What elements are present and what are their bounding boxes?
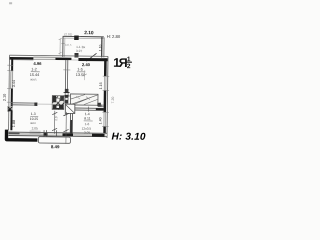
porch right wall	[101, 37, 103, 57]
svg-text:3.44: 3.44	[12, 80, 16, 87]
porch left wall	[62, 36, 64, 56]
svg-text:8.11: 8.11	[84, 117, 91, 121]
chimney block	[52, 96, 64, 110]
svg-text:1-5: 1-5	[77, 68, 83, 72]
svg-text:H: 2.80: H: 2.80	[107, 34, 121, 39]
leader diagonal to entrance	[86, 53, 96, 61]
porch left dim ticks	[59, 39, 61, 55]
window right W3	[104, 76, 107, 90]
svg-text:8.49: 8.49	[51, 144, 60, 149]
terrace steps rectangle	[38, 137, 70, 144]
left wall	[8, 55, 11, 130]
svg-text:1.16: 1.16	[99, 82, 103, 89]
svg-text:H: 3.10: H: 3.10	[111, 131, 146, 142]
ticks on left wall	[7, 65, 13, 102]
svg-text:2.10: 2.10	[84, 30, 94, 36]
door swing square	[65, 104, 75, 113]
small dark window/hatch lower-left	[7, 106, 13, 112]
vertical dim line lower-left room	[54, 111, 56, 134]
window right W4	[104, 112, 107, 126]
door opening line	[71, 59, 78, 61]
svg-text:2х0,5: 2х0,5	[65, 43, 72, 47]
vertical dim line 2 at x 66.5	[65, 112, 67, 136]
svg-text:2.05: 2.05	[32, 126, 38, 130]
ticks bottom wall	[44, 130, 57, 137]
window top W1	[33, 56, 55, 60]
dark cluster at interior wall head	[65, 89, 69, 104]
dim line under 2.10	[81, 36, 104, 38]
top wall mid black	[55, 58, 71, 61]
interior vertical wall (center)	[65, 60, 68, 103]
svg-text:1-2: 1-2	[31, 67, 37, 71]
svg-text:3.97: 3.97	[76, 49, 82, 53]
svg-text:1.40: 1.40	[98, 117, 102, 124]
porch top wall	[63, 35, 104, 38]
porch bottom small stub	[74, 53, 78, 58]
svg-text:15.44: 15.44	[30, 73, 40, 77]
svg-text:(2.01): (2.01)	[64, 32, 72, 36]
porch pier	[74, 35, 79, 40]
interior horizontal wall left	[11, 103, 37, 105]
svg-text:2.10: 2.10	[3, 94, 7, 101]
top wall right black	[78, 58, 107, 61]
interior horizontal wall right room	[70, 108, 104, 110]
main top wall black segments	[9, 57, 33, 60]
ticks on right wall	[102, 76, 109, 126]
svg-text:1.88: 1.88	[12, 120, 16, 127]
svg-text:7.20: 7.20	[111, 97, 115, 104]
svg-text:4.96: 4.96	[33, 61, 42, 66]
faint vertical dim in room 1-5	[84, 70, 86, 80]
svg-text:3.05: 3.05	[84, 131, 90, 135]
svg-text:1-3: 1-3	[31, 112, 36, 116]
svg-text:2: 2	[127, 63, 131, 70]
bottom wall dark segments	[9, 132, 20, 134]
bottom wall band	[8, 132, 107, 137]
svg-text:2.40: 2.40	[82, 62, 91, 67]
window left W2	[9, 71, 13, 88]
svg-text:2.9: 2.9	[54, 116, 58, 121]
main top wall outer line	[9, 55, 107, 56]
big text 1Я1/2	[113, 56, 132, 70]
svg-text:1.16: 1.16	[98, 44, 102, 51]
stair rectangle hatched	[70, 94, 98, 105]
bottom-left thick porch wall	[6, 130, 37, 140]
svg-text:жил: жил	[30, 121, 36, 125]
speck top-left	[9, 2, 12, 4]
svg-text:1-6: 1-6	[85, 122, 90, 126]
right wall	[106, 56, 109, 137]
interior vertical wall right room	[70, 110, 72, 134]
bottom wall window midlines	[20, 134, 92, 135]
svg-text:жил.: жил.	[30, 77, 37, 81]
svg-text:1-4: 1-4	[85, 112, 90, 116]
